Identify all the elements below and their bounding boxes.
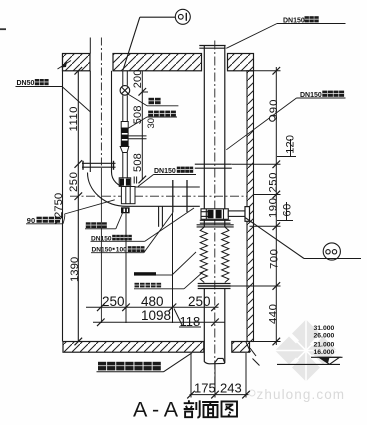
bellows bottom flange bbox=[198, 284, 231, 289]
svg-text:250: 250 bbox=[188, 294, 211, 309]
svg-text:118: 118 bbox=[180, 314, 201, 329]
left pipe centerline extension to bottom dims bbox=[100, 170, 102, 323]
small circle on leader bbox=[269, 116, 275, 122]
svg-text:175: 175 bbox=[194, 381, 216, 396]
svg-text:26.000: 26.000 bbox=[314, 333, 335, 340]
riser top cap lines bbox=[199, 46, 225, 49]
watermark logo pinwheel bbox=[275, 320, 337, 382]
watermark copyright dot bbox=[249, 390, 255, 396]
left wall bbox=[63, 54, 79, 342]
118 slash bbox=[174, 309, 182, 326]
svg-text:60: 60 bbox=[281, 203, 293, 216]
label 90 degree elbow bbox=[27, 216, 60, 225]
bottom dim chain A 250/480/250 bbox=[86, 212, 225, 327]
horizontal pipe flange bars bbox=[173, 180, 187, 212]
outer dim 2750 ticks bbox=[55, 216, 63, 224]
svg-text:700: 700 bbox=[269, 249, 281, 269]
60 offset bracket bbox=[286, 202, 288, 221]
svg-text:2750: 2750 bbox=[53, 193, 65, 218]
thin DN50 pipe bbox=[123, 71, 128, 178]
svg-text:250: 250 bbox=[102, 294, 125, 309]
svg-text:243: 243 bbox=[220, 381, 242, 396]
top slab middle segment bbox=[113, 54, 202, 71]
svg-text:31.000: 31.000 bbox=[314, 325, 335, 332]
riser bottom end bbox=[204, 358, 225, 363]
left pipe centerline bbox=[100, 38, 102, 171]
top right label DN150 bbox=[283, 16, 319, 24]
svg-text:DN50: DN50 bbox=[17, 80, 35, 87]
pipe clamp dark box bbox=[121, 207, 130, 213]
bottom pipe dims 175/243 bbox=[187, 353, 250, 398]
svg-text:250: 250 bbox=[68, 172, 80, 192]
90 degree elbow inner arc bbox=[112, 172, 127, 187]
watermark pinwheel white seams bbox=[272, 316, 340, 385]
right label DN150 welded bbox=[300, 91, 344, 99]
riser centerline bbox=[214, 41, 216, 393]
svg-text:120: 120 bbox=[285, 135, 297, 154]
top slab right segment bbox=[228, 54, 254, 71]
gate valve circle on DN50 bbox=[120, 86, 130, 96]
120 offset bracket bbox=[290, 139, 292, 157]
extension lines bbox=[254, 70, 281, 72]
left inner dim chain line ticks bbox=[75, 67, 83, 345]
svg-text:A-A: A-A bbox=[133, 397, 183, 421]
rubber flexible joint body on DN50 bbox=[120, 122, 129, 153]
svg-text:1390: 1390 bbox=[69, 257, 81, 282]
label DN150 expansion bbox=[91, 235, 132, 243]
svg-text:190: 190 bbox=[268, 198, 280, 218]
wall sleeve stub at left wall bbox=[82, 161, 116, 170]
right wall hatched bbox=[247, 71, 254, 342]
elevation symbol bbox=[277, 357, 343, 364]
title char 图 bbox=[222, 401, 238, 416]
svg-text:440: 440 bbox=[268, 304, 280, 324]
black bar label bbox=[134, 272, 156, 275]
coupling bolts dark bbox=[208, 210, 222, 219]
right dim chain main line bbox=[231, 67, 297, 345]
coupling stub to wall bbox=[228, 211, 245, 217]
svg-text:DN150: DN150 bbox=[154, 168, 176, 175]
svg-text:1098: 1098 bbox=[141, 308, 171, 323]
left edge tick bbox=[0, 28, 6, 30]
label DN150 welded pipe mid bbox=[154, 167, 193, 175]
top-center dim chain 200/508/30/508 bbox=[128, 71, 149, 184]
title char 面 bbox=[202, 402, 219, 417]
label DN150x100 reducer bbox=[92, 246, 145, 253]
title A-A section bbox=[133, 397, 237, 421]
svg-text:200: 200 bbox=[132, 69, 144, 88]
svg-text:480: 480 bbox=[141, 294, 164, 309]
taper below joint bbox=[120, 147, 129, 153]
top callout bubble bbox=[123, 9, 190, 70]
svg-text:508: 508 bbox=[132, 153, 144, 172]
support bars under horizontal pipe bbox=[159, 206, 163, 227]
top slab left segment bbox=[63, 54, 254, 71]
callout bubble 2 bbox=[245, 218, 361, 261]
svg-text:zhulong.com: zhulong.com bbox=[257, 387, 346, 402]
flange stack below coupling bbox=[197, 220, 234, 227]
svg-text:508: 508 bbox=[132, 105, 144, 124]
label gate valve 闸阀 bbox=[149, 98, 161, 104]
coupling assembly on riser bbox=[201, 209, 228, 220]
label fill concrete 埋石混凝土填实 bbox=[98, 362, 161, 371]
svg-text:21.000: 21.000 bbox=[314, 341, 335, 348]
90 degree elbow outer arc bbox=[88, 173, 127, 207]
svg-text:30: 30 bbox=[146, 118, 157, 129]
bellows expansion joint bbox=[200, 227, 229, 283]
left DN150 pipe vertical walls bbox=[90, 38, 111, 173]
svg-text:250: 250 bbox=[268, 172, 280, 192]
label pipe clamp 管道抱卡 bbox=[86, 222, 107, 228]
horizontal centerline across chamber bbox=[70, 195, 247, 197]
DN50 bottom flange with bolts bbox=[119, 178, 131, 187]
floor slab left segment bbox=[63, 342, 250, 353]
svg-text:1110: 1110 bbox=[68, 106, 80, 131]
svg-text:16.000: 16.000 bbox=[314, 349, 335, 356]
horizontal DN150 pipe to riser bbox=[127, 187, 200, 206]
floor right break marks bbox=[246, 342, 260, 366]
extension verticals bbox=[125, 214, 127, 324]
riser flange double line bbox=[195, 164, 232, 168]
floor slab right segment bbox=[232, 342, 250, 353]
title char 剖 bbox=[184, 400, 200, 417]
reducer box into horizontal pipe bbox=[121, 187, 135, 204]
right riser pipe walls bbox=[204, 46, 225, 364]
label DN50 top-left bbox=[17, 79, 49, 87]
top-left corner break mark bbox=[58, 61, 72, 70]
wall plate bar bbox=[245, 207, 250, 222]
label rubber joint 橡胶软接头 bbox=[148, 111, 176, 117]
second dark label bbox=[135, 283, 162, 288]
bottom dim chain B 1098 bbox=[93, 321, 225, 323]
ticks bbox=[273, 67, 281, 75]
